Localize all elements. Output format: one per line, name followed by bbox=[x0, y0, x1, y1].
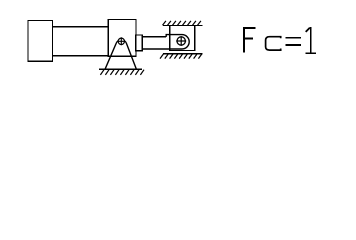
piston rod bbox=[142, 36, 166, 38]
pin P2 (slider pin, circle with crosshair) bbox=[176, 36, 186, 45]
label Fc=1 : letter F bbox=[243, 27, 255, 53]
bottom guide hatching bbox=[160, 54, 202, 59]
top guide line bbox=[163, 24, 203, 26]
label Fc=1 : digit 1 bbox=[306, 27, 316, 54]
cylinder body bbox=[52, 27, 108, 56]
pivot support triangle bbox=[105, 40, 136, 70]
pin P1 (pivot, circle with crosshair) bbox=[117, 37, 125, 45]
label Fc=1 : letter c bbox=[266, 37, 281, 50]
ground line (pivot base) bbox=[99, 68, 142, 70]
bottom guide line bbox=[163, 53, 203, 55]
label Fc=1 : equals sign bbox=[285, 37, 301, 46]
rod collar stub bbox=[136, 35, 142, 51]
top guide hatching bbox=[163, 21, 201, 25]
rod rounded end (clevis) bbox=[142, 35, 189, 49]
cylinder cap block bbox=[28, 20, 53, 61]
slider block bbox=[170, 25, 195, 50]
trunnion plate bbox=[108, 20, 136, 57]
ground hatching (pivot base) bbox=[100, 70, 144, 75]
